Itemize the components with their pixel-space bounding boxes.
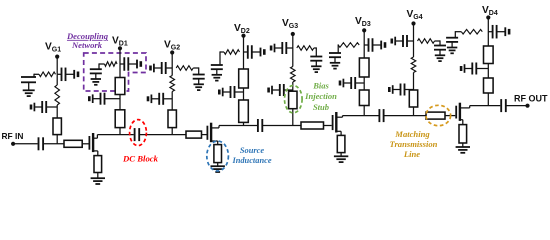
inductor Q1 source line [94, 156, 102, 173]
ground Q2 source [211, 165, 225, 167]
wire VG4 lower [413, 73, 415, 91]
resistor VG1 bias [39, 72, 56, 77]
capacitor VD2 RC to ground drop [219, 51, 221, 65]
wire VG3 to gate line [292, 109, 294, 126]
transmission line VD1 feed stub A [115, 78, 125, 95]
capacitor output DC block [500, 99, 502, 112]
capacitor VD2 lower bypass via stub [218, 90, 221, 95]
resistor VG3 series [291, 67, 296, 83]
wire Q1 drain lead [93, 137, 97, 139]
capacitor VG3 lower bypass via stub [267, 88, 270, 93]
wire VG4 to gate line [413, 107, 415, 116]
node VG2 supply [170, 50, 174, 54]
wire VD1 to RC [99, 63, 105, 65]
wire VG2 feed upper [171, 53, 173, 69]
wire VD1 lower [119, 95, 121, 110]
transmission line interstage 1-2 [186, 131, 202, 138]
capacitor VG2 RC to ground lead [198, 67, 200, 69]
svg-text:Bias: Bias [312, 81, 329, 91]
capacitor VG2 lower bypass second plate [150, 95, 152, 104]
wire input to VG1 node [43, 143, 64, 145]
capacitor VG1 bypass lead [57, 73, 61, 75]
decoupling network outline [84, 53, 146, 91]
transistor Q4 gate bar [455, 106, 457, 119]
capacitor VD3 lower bypass second plate [342, 79, 344, 88]
wire VG1 lower [56, 105, 58, 118]
wire VG2 to gate line [171, 128, 173, 135]
capacitor VD3 RC to ground [329, 52, 341, 54]
capacitor VG3 lower bypass lead2 [272, 89, 280, 91]
wire Q3 drain lead [336, 116, 342, 118]
capacitor VD2 lower bypass second plate [222, 88, 224, 97]
node RF IN [11, 142, 15, 146]
capacitor VD4 lower bypass lead2 [465, 68, 473, 70]
capacitor VG2 bypass [161, 62, 163, 74]
transmission line VD3 feed stub A [359, 58, 369, 77]
node VD2 supply [241, 34, 245, 38]
capacitor VG2 lower bypass via stub [147, 96, 150, 101]
capacitor VD3 lower bypass [350, 77, 352, 89]
capacitor VD2 bypass second plate [260, 48, 262, 57]
capacitor VD4 lower bypass lead [476, 68, 488, 70]
wire Q4 drain jog [469, 106, 471, 108]
transistor Q1 channel bar [92, 133, 94, 152]
capacitor VD1 lower bypass lead [105, 98, 121, 100]
wire Q2 source drop [217, 141, 219, 145]
transmission line VG2 feed stub [168, 110, 176, 128]
wire Q2 source to ground [217, 163, 219, 167]
capacitor VG4 RC to ground stem [439, 50, 441, 56]
capacitor VD4 bypass via stub [508, 29, 511, 35]
inductor Q3 source line [337, 135, 345, 152]
capacitor VG3 bypass second plate [274, 44, 276, 53]
ground VG1 RC [23, 89, 35, 91]
svg-text:Stub: Stub [313, 102, 329, 112]
capacitor VG2 bypass lead2 [154, 67, 162, 69]
wire Q4 source to ground [462, 143, 464, 147]
wire VD3 to RC [337, 44, 339, 46]
capacitor VD2 bypass via stub [263, 49, 266, 55]
capacitor VG2 bypass via stub [149, 66, 152, 71]
transmission line VG1 feed stub [53, 118, 61, 135]
capacitor VG1 RC to ground [21, 76, 36, 78]
resistor VD4 bias [461, 29, 482, 34]
transistor Q1 gate bar [88, 136, 90, 150]
capacitor VD4 RC to ground ground [447, 47, 457, 49]
wire VD3 lower [363, 77, 365, 90]
capacitor VG2 RC to ground ground [194, 83, 204, 85]
capacitor VD2 lower bypass lead2 [223, 91, 231, 93]
capacitor VG1 lower bypass via stub [30, 105, 33, 110]
transmission line VD4 feed stub B [484, 78, 494, 93]
capacitor VD2 bypass lead [244, 51, 248, 53]
wire VD2 feed upper [243, 36, 245, 69]
wire VD4 lower [487, 64, 489, 79]
capacitor VD2 RC to ground stem [216, 69, 218, 75]
capacitor VG3 bypass lead [286, 47, 293, 49]
capacitor VD2 RC to ground lead [219, 51, 221, 53]
transmission line VD1 feed stub B [115, 110, 125, 128]
wire stage1 to VG2 [139, 134, 186, 136]
wire VG2 mid [171, 68, 173, 76]
capacitor VG1 lower bypass [41, 101, 43, 113]
wire to Q1 gate [82, 143, 88, 145]
capacitor VD3 bypass lead2 [373, 44, 382, 46]
wire VD2 to drain line [243, 122, 245, 125]
wire VG4 feed upper [413, 24, 415, 42]
capacitor VG4 bypass lead [407, 40, 414, 42]
capacitor VG3 RC to ground drop [315, 47, 317, 56]
svg-text:Source: Source [240, 146, 264, 155]
resistor VD2 bias [224, 50, 240, 55]
capacitor VG3 RC to ground stem [315, 61, 317, 67]
wire VG1 to gate line [56, 135, 58, 144]
wire stage2 to VG3 [262, 125, 301, 127]
resistor VG4 bias [418, 39, 435, 44]
wire Q4 source lead [460, 119, 463, 121]
wire Q3 drain jog [342, 116, 344, 118]
capacitor VG4 lower bypass lead [405, 89, 414, 91]
wire VD3 to drain line [363, 106, 365, 116]
wire VG1 feed upper [56, 57, 58, 75]
svg-text:RF OUT: RF OUT [514, 94, 548, 104]
capacitor VD4 bypass lead2 [497, 31, 506, 33]
svg-text:Line: Line [403, 149, 420, 159]
capacitor VG3 bypass via stub [270, 46, 273, 51]
capacitor VD2 bypass [247, 45, 249, 59]
capacitor VG3 lower bypass lead [284, 89, 293, 91]
capacitor VD3 bypass lead [364, 44, 368, 46]
capacitor VD3 lower bypass lead [355, 82, 364, 84]
wire Q3 source drop [340, 131, 342, 135]
node RF OUT [525, 104, 529, 108]
wire VG2 lower [171, 92, 173, 111]
transmission line VD3 feed stub B [359, 90, 369, 106]
capacitor VD1 lower bypass via stub [88, 96, 91, 101]
capacitor VD4 RC to ground stem [451, 42, 453, 48]
wire VG4 to RC [435, 40, 441, 42]
svg-text:Matching: Matching [394, 129, 430, 139]
transistor Q4 channel bar [459, 103, 461, 121]
transistor Q3 channel bar [335, 112, 337, 133]
svg-text:DC Block: DC Block [122, 154, 159, 164]
capacitor VG4 bypass second plate [394, 37, 396, 46]
capacitor VG2 lower bypass [158, 93, 160, 105]
capacitor VD3 bypass second plate [380, 41, 382, 50]
capacitor VG1 lower bypass lead [46, 106, 57, 108]
transmission line VD4 feed stub A [484, 46, 494, 64]
capacitor VG2 RC to ground [193, 74, 205, 76]
capacitor VG1 lower bypass lead2 [34, 106, 42, 108]
svg-text:Network: Network [71, 40, 103, 50]
capacitor VG1 lower bypass second plate [33, 103, 35, 112]
resistor VD1 bias [105, 62, 118, 67]
wire VG3 to RC [314, 47, 317, 49]
resistor VD3 bias [338, 43, 359, 48]
capacitor VD2 lower bypass lead [235, 91, 244, 93]
resistor VG1 series [55, 85, 60, 105]
capacitor VG2 RC to ground drop [198, 67, 200, 74]
capacitor VD1 RC to ground lead [98, 63, 100, 65]
wire Q4 drain lead [460, 107, 470, 109]
wire drain line stage2 [219, 125, 257, 127]
capacitor VD1 lower bypass [100, 93, 102, 105]
capacitor VD3 lower bypass via stub [339, 81, 342, 86]
node VG1 supply [55, 55, 59, 59]
wire Q2 drain jog [218, 126, 220, 128]
capacitor VG1 bypass second plate [73, 70, 75, 79]
node VG3 supply [291, 32, 295, 36]
capacitor VG3 lower bypass second plate [271, 86, 273, 95]
node VD1 supply [118, 46, 122, 50]
wire drain line stage4 [470, 105, 501, 107]
capacitor VG2 lower bypass lead2 [151, 98, 159, 100]
capacitor VG4 bypass via stub [390, 39, 393, 44]
wire VG3 feed upper [292, 34, 294, 48]
wire VG3 mid [292, 48, 294, 67]
capacitor VG3 RC to ground [310, 56, 322, 58]
svg-text:Injection: Injection [304, 91, 337, 101]
capacitor VD2 RC to ground [211, 64, 223, 66]
capacitor VG2 bypass second plate [153, 64, 155, 73]
wire VG2 to RC [193, 67, 199, 69]
capacitor VD1 bypass via stub [140, 61, 143, 67]
wire drain line stage1 [97, 134, 133, 136]
capacitor VD3 lower bypass lead2 [343, 82, 351, 84]
wire VD3 feed upper [363, 30, 365, 58]
transmission line interstage 2-3 [301, 122, 324, 129]
capacitor VG4 lower bypass via stub [388, 87, 391, 92]
inductor Q4 source line [459, 125, 467, 143]
capacitor VG3 RC to ground ground [311, 65, 321, 67]
capacitor VD4 RC to ground drop [454, 31, 456, 38]
node VD4 supply [486, 15, 490, 19]
inductor Q2 source line [214, 145, 222, 163]
capacitor VD3 RC to ground drop [337, 44, 339, 53]
capacitor DC block 1 [134, 128, 136, 141]
capacitor VD2 RC to ground ground [212, 74, 222, 76]
wire stage3 to VG4 [384, 115, 426, 117]
capacitor VD3 RC to ground stem [334, 57, 336, 63]
capacitor VD1 RC to ground ground [91, 78, 101, 80]
wire VD4 to drain line [487, 93, 489, 106]
capacitor VG4 bypass lead2 [395, 40, 403, 42]
wire to RF OUT [506, 105, 528, 107]
capacitor VD1 bypass second plate [136, 60, 138, 69]
wire Q1 source lead [93, 150, 98, 152]
wire to Q2 gate [202, 134, 207, 136]
capacitor VD3 RC to ground lead [337, 44, 339, 46]
resistor VG3 bias [297, 46, 314, 51]
capacitor VD1 lower bypass second plate [92, 94, 94, 103]
capacitor VD4 bypass [492, 25, 494, 39]
capacitor DC block 2 [257, 119, 259, 132]
wire VD4 to RC [455, 31, 461, 33]
node VD3 supply [362, 28, 366, 32]
capacitor VG3 RC to ground lead [315, 47, 317, 49]
ground Q4 source [456, 146, 470, 148]
wire VD2 lower [243, 88, 245, 100]
wire to Q4 gate [445, 115, 455, 117]
capacitor VD3 RC to ground ground [330, 62, 340, 64]
wire Q1 drain jog [96, 135, 98, 139]
capacitor VG4 RC to ground [434, 45, 446, 47]
capacitor VD1 RC to ground [90, 68, 102, 70]
annotation Source Inductance ellipse [207, 141, 229, 171]
transistor Q2 channel bar [210, 123, 212, 143]
capacitor VG4 lower bypass [400, 84, 402, 96]
ground Q1 source [91, 177, 105, 179]
wire VG1 cap stem [28, 82, 30, 90]
transmission line input matching [64, 140, 82, 147]
wire VG4 mid [413, 41, 415, 57]
capacitor input DC block [38, 137, 40, 150]
resistor VG2 bias [176, 66, 193, 71]
wire Q4 source drop [462, 120, 464, 125]
wire VG1 cap drop [33, 74, 35, 77]
wire VG3 lower [292, 82, 294, 91]
capacitor VD4 bypass second plate [504, 27, 506, 36]
wire VD4 feed upper [487, 18, 489, 47]
transmission line matching output stage [426, 112, 445, 119]
capacitor DC block 3 [378, 109, 380, 122]
wire Q2 drain lead [211, 127, 219, 129]
capacitor VG2 bypass lead [166, 67, 173, 69]
capacitor VG3 lower bypass [279, 84, 281, 96]
capacitor VG2 lower bypass lead [163, 98, 172, 100]
resistor VG4 series [411, 57, 416, 73]
capacitor VG4 RC to ground ground [435, 54, 445, 56]
wire VG1 to cap [34, 73, 39, 75]
capacitor VG4 lower bypass lead2 [393, 89, 401, 91]
capacitor VD1 lower bypass lead2 [93, 98, 101, 100]
svg-text:RF IN: RF IN [2, 131, 24, 141]
capacitor VD3 bypass via stub [384, 42, 387, 48]
wire RF input [13, 143, 37, 145]
transmission line VD2 feed stub B [239, 100, 249, 122]
capacitor VD4 lower bypass via stub [460, 66, 463, 71]
capacitor VG1 bypass [61, 68, 63, 82]
capacitor VD4 lower bypass second plate [464, 64, 466, 73]
wire Q3 source to ground [340, 153, 342, 157]
capacitor VG2 RC to ground stem [198, 79, 200, 85]
capacitor VG3 bypass [281, 42, 283, 54]
transmission line VG4 feed stub [409, 90, 417, 107]
capacitor VG4 RC to ground drop [439, 40, 441, 45]
transmission line VD2 feed stub A [239, 69, 249, 88]
svg-text:Transmission: Transmission [390, 139, 438, 149]
capacitor VD2 bypass lead2 [252, 51, 261, 53]
capacitor VD1 bypass lead2 [128, 63, 137, 65]
capacitor VD1 bypass lead [120, 63, 124, 65]
annotation DC Block ellipse [130, 120, 147, 146]
wire Q1 source drop [97, 151, 99, 156]
capacitor VD4 RC to ground lead [454, 31, 456, 33]
capacitor VD1 RC to ground drop [98, 63, 100, 69]
node VG4 supply [411, 21, 415, 25]
capacitor VD4 bypass lead [488, 31, 492, 33]
capacitor VG4 lower bypass second plate [392, 85, 394, 94]
annotation Matching Transmission Line ellipse [426, 105, 451, 125]
capacitor VD3 bypass [368, 38, 370, 52]
resistor VG2 series [170, 76, 175, 92]
transmission line VG3 feed stub [289, 91, 297, 109]
ground Q3 source [334, 155, 348, 157]
wire Q3 source lead [336, 130, 341, 132]
capacitor VG4 bypass [402, 35, 404, 47]
wire VD1 to drain line [119, 128, 121, 135]
capacitor VD1 bypass [123, 57, 125, 71]
capacitor VG1 bypass via stub [77, 72, 80, 78]
wire VD2 to RC [220, 51, 224, 53]
svg-text:Inductance: Inductance [231, 156, 271, 165]
capacitor VD4 lower bypass [471, 63, 473, 75]
capacitor VG4 RC to ground lead [439, 40, 441, 42]
wire Q1 source to ground [97, 173, 99, 179]
transistor Q3 gate bar [332, 115, 334, 130]
annotation Bias Injection Stub ellipse [285, 86, 303, 113]
wire to Q3 gate [324, 125, 332, 127]
capacitor VG1 bypass lead2 [66, 73, 75, 75]
capacitor VD1 RC to ground stem [95, 73, 97, 79]
wire VD1 feed upper [119, 48, 121, 77]
wire VG1 mid [56, 74, 58, 85]
wire drain line stage3 [343, 115, 379, 117]
capacitor VD4 RC to ground [446, 37, 458, 39]
wire Q2 source lead [211, 140, 218, 142]
transistor Q2 gate bar [206, 126, 208, 140]
capacitor VG3 bypass lead2 [275, 47, 283, 49]
capacitor VD2 lower bypass [230, 86, 232, 98]
